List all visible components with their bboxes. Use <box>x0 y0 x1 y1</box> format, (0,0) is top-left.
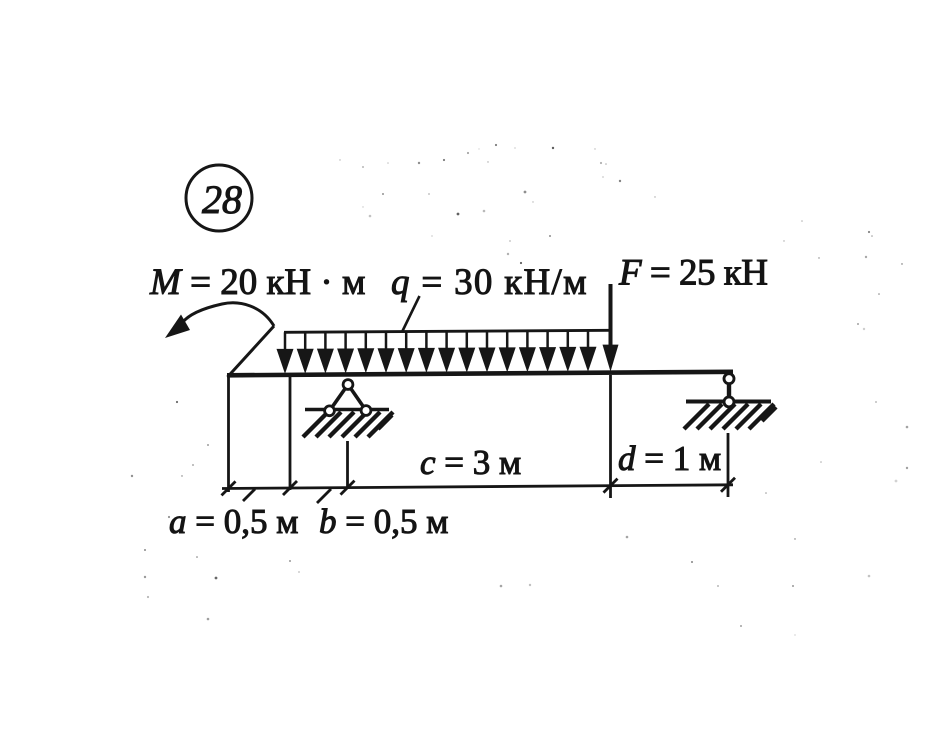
svg-text:d = 1 м: d = 1 м <box>618 439 721 478</box>
svg-text:c = 3 м: c = 3 м <box>420 443 521 482</box>
svg-text:28: 28 <box>202 177 242 222</box>
svg-text:a = 0,5 м: a = 0,5 м <box>169 502 298 541</box>
svg-text:M = 20 кН · м: M = 20 кН · м <box>149 262 365 303</box>
svg-text:b = 0,5 м: b = 0,5 м <box>319 502 448 541</box>
svg-text:F = 25 кН: F = 25 кН <box>618 253 767 294</box>
